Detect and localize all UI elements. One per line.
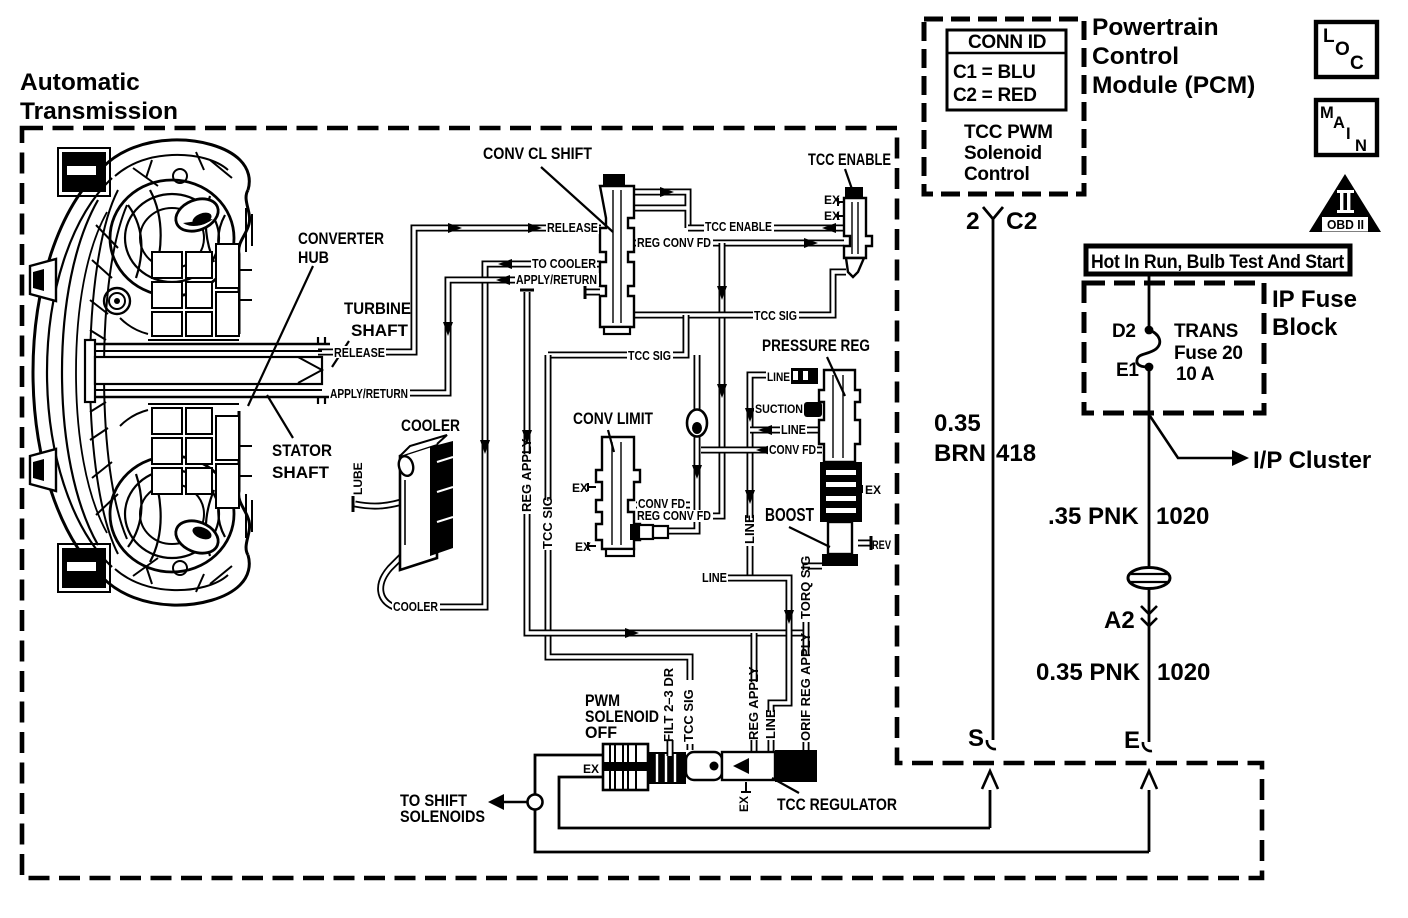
svg-text:TCC ENABLE: TCC ENABLE	[705, 219, 772, 234]
grommet	[1128, 568, 1170, 589]
pipe label TO COOLER	[531, 256, 597, 271]
pipe REG CONV FD run	[634, 238, 844, 248]
svg-text:APPLY/RETURN: APPLY/RETURN	[516, 272, 597, 287]
svg-text:C1 = BLU: C1 = BLU	[953, 62, 1036, 83]
valve PRESSURE REG	[791, 368, 862, 566]
mounting lug bottom	[62, 548, 106, 588]
pipe REG APPLY long vertical	[520, 290, 806, 638]
converter shaft	[85, 337, 330, 404]
terminal E	[1124, 727, 1152, 754]
svg-text:Automatic: Automatic	[20, 69, 140, 96]
svg-text:EX: EX	[737, 796, 751, 812]
PCM dashed box	[924, 19, 1084, 194]
svg-text:TCC PWM: TCC PWM	[964, 122, 1053, 143]
pipe APPLY/RETURN from stator shaft to CONV CL SHIFT	[330, 275, 601, 393]
valve CONV CL SHIFT	[600, 174, 634, 334]
pipe label CONV FD conv limit	[637, 496, 686, 511]
svg-text:EX: EX	[865, 483, 881, 497]
wire E return	[535, 755, 1157, 852]
svg-text:BOOST: BOOST	[765, 505, 814, 525]
svg-text:LINE: LINE	[767, 370, 790, 384]
svg-text:Fuse 20: Fuse 20	[1174, 343, 1243, 364]
svg-text:STATOR: STATOR	[272, 442, 332, 460]
svg-text:C2 = RED: C2 = RED	[953, 85, 1037, 106]
label EX tcc enable 1	[824, 193, 840, 207]
svg-text:CONN ID: CONN ID	[968, 32, 1046, 53]
svg-text:CONV LIMIT: CONV LIMIT	[573, 410, 653, 428]
Hot In Run box	[1086, 246, 1350, 274]
pipe TCC SIG long vertical to solenoid	[548, 355, 690, 750]
svg-text:LUBE: LUBE	[351, 462, 365, 495]
svg-text:I/P Cluster: I/P Cluster	[1253, 447, 1371, 474]
svg-text:O: O	[1335, 39, 1349, 60]
pipe TCC SIG upper run to TCC ENABLE	[634, 272, 846, 315]
svg-text:I: I	[1346, 125, 1351, 143]
svg-text:TURBINE: TURBINE	[344, 300, 411, 318]
svg-text:TORQ SIG: TORQ SIG	[798, 556, 813, 619]
pipe LINE main vertical	[745, 375, 791, 578]
right bottom edge	[239, 411, 250, 555]
svg-text:TCC SIG: TCC SIG	[628, 348, 671, 363]
label REV	[872, 538, 891, 552]
svg-text:LINE: LINE	[702, 570, 727, 585]
pipe cooler inlet curve	[381, 556, 402, 607]
svg-text:PRESSURE REG: PRESSURE REG	[762, 337, 870, 355]
wire .35 PNK 1020	[1048, 416, 1209, 566]
pipe label TCC ENABLE	[704, 219, 774, 234]
svg-text:C: C	[1350, 53, 1364, 74]
pipe TORQ SIG leg	[806, 566, 822, 635]
left stub bottom	[30, 449, 56, 491]
svg-text:D2: D2	[1112, 321, 1136, 342]
svg-text:Powertrain: Powertrain	[1092, 14, 1219, 41]
pipe RELEASE from turbine shaft to CONV CL SHIFT	[318, 223, 601, 352]
torque converter cross-section	[30, 140, 330, 605]
pipe label LINE bottom	[701, 570, 728, 585]
pipe label LINE mid	[780, 422, 807, 437]
svg-text:REV: REV	[872, 538, 891, 552]
svg-text:A: A	[1333, 114, 1345, 132]
svg-text:REG APPLY: REG APPLY	[519, 438, 534, 512]
svg-text:REG CONV FD: REG CONV FD	[637, 235, 711, 250]
svg-text:COOLER: COOLER	[401, 417, 460, 435]
svg-text:SHAFT: SHAFT	[272, 464, 329, 482]
svg-text:Block: Block	[1272, 314, 1338, 341]
rotated label LINE lower	[763, 709, 778, 740]
leader TURBINE SHAFT	[332, 300, 411, 367]
svg-text:M: M	[1320, 104, 1334, 122]
pipe TCC ENABLE run	[688, 223, 844, 233]
svg-text:Solenoid: Solenoid	[964, 143, 1042, 164]
svg-text:REG APPLY: REG APPLY	[746, 666, 761, 740]
PCM wire 2 C2	[934, 207, 1037, 740]
svg-text:Hot In Run, Bulb Test And Star: Hot In Run, Bulb Test And Start	[1091, 252, 1345, 273]
label EX pressure reg	[865, 483, 881, 497]
svg-text:EX: EX	[824, 193, 840, 207]
label EX tcc enable 2	[824, 209, 840, 223]
svg-text:C2: C2	[1006, 208, 1037, 235]
leader BOOST	[765, 505, 830, 547]
svg-text:RELEASE: RELEASE	[547, 220, 598, 235]
svg-text:LINE: LINE	[742, 514, 757, 544]
label EX conv limit 2	[575, 540, 591, 554]
svg-text:TCC SIG: TCC SIG	[681, 689, 696, 742]
svg-text:CONV FD: CONV FD	[769, 442, 816, 457]
label EX conv limit 1	[572, 481, 588, 495]
outer bell left arc	[33, 167, 103, 578]
svg-text:Control: Control	[1092, 43, 1179, 70]
svg-text:SHAFT: SHAFT	[351, 322, 408, 340]
svg-text:Transmission: Transmission	[20, 98, 178, 125]
svg-text:E1: E1	[1116, 360, 1139, 381]
svg-text:Module (PCM): Module (PCM)	[1092, 72, 1255, 99]
pipe label CONV FD right	[768, 442, 817, 457]
leader TCC ENABLE	[808, 151, 891, 192]
pipe vertical REG CONV FD branch	[636, 243, 727, 516]
pipe TCC SIG lower run	[548, 315, 686, 355]
label Powertrain Control Module (PCM)	[1092, 14, 1255, 99]
pipe label TCC SIG lower	[627, 348, 673, 363]
label TCC PWM Solenoid Control	[964, 122, 1053, 185]
pipe label REG CONV FD	[636, 235, 713, 250]
flexplate arcs	[62, 200, 98, 545]
pipe label RELEASE right	[546, 220, 599, 235]
turbine spline stack bottom	[152, 408, 239, 508]
pipe stub on valve left	[585, 285, 600, 299]
rotated label TCC SIG vertical	[540, 496, 555, 550]
label EX solenoid	[583, 762, 599, 776]
pipe label RELEASE left	[333, 345, 386, 360]
title Automatic Transmission	[20, 69, 178, 125]
rotated label LUBE	[351, 462, 368, 496]
CONN ID table	[947, 30, 1066, 110]
svg-text:LINE: LINE	[763, 709, 778, 739]
mounting lug top	[62, 152, 106, 192]
leader PRESSURE REG	[762, 337, 870, 396]
pipe label SUCTION	[754, 402, 804, 416]
EX stubs TCC ENABLE	[838, 198, 844, 220]
pipe CONV FD port of conv limit	[636, 502, 690, 509]
svg-text:0.35: 0.35	[934, 410, 981, 437]
svg-text:OFF: OFF	[585, 724, 617, 742]
svg-text:LINE: LINE	[781, 422, 806, 437]
svg-text:FILT 2–3 DR: FILT 2–3 DR	[661, 667, 676, 742]
label COOLER title	[401, 417, 460, 435]
pipe LUBE from cooler	[353, 496, 408, 512]
svg-text:IP Fuse: IP Fuse	[1272, 286, 1357, 313]
connector A2	[1036, 589, 1210, 742]
leader CONVERTER HUB	[248, 230, 384, 406]
svg-text:CONVERTER: CONVERTER	[298, 230, 384, 248]
leader TCC REGULATOR	[772, 778, 897, 814]
terminal S	[968, 725, 996, 752]
pipe top loop of CONV CL SHIFT	[634, 187, 688, 228]
turbine spline stack top	[152, 244, 239, 336]
svg-text:EX: EX	[575, 540, 591, 554]
svg-text:CONV CL SHIFT: CONV CL SHIFT	[483, 145, 592, 163]
valve TCC REGULATOR	[686, 750, 817, 792]
svg-text:BRN: BRN	[934, 440, 986, 467]
leader STATOR SHAFT	[267, 395, 332, 482]
bottom torus ring	[110, 456, 234, 572]
svg-text:RELEASE: RELEASE	[334, 345, 385, 360]
OBD II triangle	[1309, 174, 1381, 232]
top cap	[103, 140, 249, 190]
rotated label REG APPLY lower	[746, 666, 761, 740]
label IP Fuse Block	[1272, 286, 1357, 341]
spool piece at CONV LIMIT outlet	[630, 524, 668, 540]
svg-text:COOLER: COOLER	[393, 599, 438, 614]
svg-text:10 A: 10 A	[1176, 364, 1215, 385]
svg-text:APPLY/RETURN: APPLY/RETURN	[330, 386, 408, 401]
leader CONV CL SHIFT	[483, 145, 613, 232]
IP Fuse Block dashed box	[1084, 283, 1264, 413]
to shift solenoids arrow	[400, 792, 543, 826]
svg-text:REG CONV FD: REG CONV FD	[637, 508, 711, 523]
left stub top	[30, 259, 56, 301]
svg-text:TCC SIG: TCC SIG	[540, 496, 555, 549]
solenoid PWM assembly	[603, 744, 686, 790]
pipe label APPLY/RETURN right	[515, 272, 599, 287]
svg-text:2: 2	[966, 208, 980, 235]
rotated label REG APPLY vertical	[519, 438, 534, 514]
svg-text:S: S	[968, 725, 984, 752]
pipe conv limit CONV FD branch	[668, 355, 702, 531]
svg-text:1020: 1020	[1156, 503, 1209, 530]
pipe ORIF REG APPLY leg	[803, 633, 810, 753]
EX stub PRESSURE REG	[857, 485, 862, 493]
svg-text:N: N	[1355, 137, 1367, 155]
right top edge	[239, 190, 250, 334]
svg-text:E: E	[1124, 727, 1140, 754]
REV stub	[858, 536, 871, 550]
svg-text:TO COOLER: TO COOLER	[532, 256, 597, 271]
svg-text:.35 PNK: .35 PNK	[1048, 503, 1139, 530]
transmission boundary dashed box	[22, 128, 1262, 878]
leader CONV LIMIT	[573, 410, 653, 452]
extra housing detail lines	[90, 152, 252, 592]
svg-text:EX: EX	[824, 209, 840, 223]
pipe label TCC SIG upper	[753, 308, 799, 323]
svg-text:Control: Control	[964, 164, 1029, 185]
top torus ring	[110, 180, 234, 296]
pipe label APPLY/RETURN left	[329, 386, 410, 401]
svg-text:1020: 1020	[1157, 659, 1210, 686]
MAIN box	[1316, 100, 1377, 155]
svg-text:TCC SIG: TCC SIG	[754, 308, 797, 323]
component COOLER	[397, 435, 453, 570]
svg-text:EX: EX	[583, 762, 599, 776]
svg-text:ORIF REG APPLY: ORIF REG APPLY	[798, 633, 813, 741]
svg-text:L: L	[1323, 26, 1335, 47]
rotated label LINE vertical	[742, 514, 757, 546]
EX stubs CONV LIMIT	[588, 483, 596, 550]
pipe label COOLER bottom	[392, 599, 439, 614]
pipe LINE to boost and regulator	[728, 578, 794, 752]
pipe REG APPLY leg to regulator	[751, 633, 758, 753]
pipe LINE mid port	[750, 425, 822, 435]
svg-text:TCC ENABLE: TCC ENABLE	[808, 151, 891, 169]
svg-text:TCC REGULATOR: TCC REGULATOR	[777, 796, 897, 814]
rotated label FILT 2-3 DR	[661, 667, 676, 756]
svg-text:SOLENOIDS: SOLENOIDS	[400, 808, 485, 826]
pipe label LINE top	[766, 370, 791, 384]
check ball valve	[687, 410, 707, 437]
svg-text:0.35 PNK: 0.35 PNK	[1036, 659, 1141, 686]
svg-text:HUB: HUB	[298, 249, 329, 267]
svg-text:SUCTION: SUCTION	[755, 402, 803, 416]
rotated label TCC SIG solenoid	[681, 680, 697, 744]
pipe TO COOLER from CONV CL SHIFT to cooler	[440, 259, 601, 607]
svg-text:EX: EX	[572, 481, 588, 495]
rotated label TORQ SIG	[798, 556, 813, 622]
fuse TRANS Fuse 20 10A	[1112, 274, 1243, 416]
rotated label ORIF REG APPLY	[798, 633, 813, 742]
wire S return	[559, 771, 998, 828]
rotated label EX regulator	[737, 796, 751, 812]
pipe CONV FD run to pressure reg	[701, 445, 822, 455]
bearing	[104, 288, 130, 314]
svg-text:OBD II: OBD II	[1327, 218, 1364, 232]
valve CONV LIMIT	[596, 437, 640, 556]
pipe label REG CONV FD conv limit	[636, 508, 713, 523]
svg-text:TRANS: TRANS	[1174, 321, 1238, 342]
LOC box	[1316, 22, 1377, 77]
svg-text:A2: A2	[1104, 607, 1135, 634]
svg-text:418: 418	[996, 440, 1036, 467]
label PWM SOLENOID OFF	[585, 692, 659, 742]
bottom cap	[103, 555, 249, 605]
wire to I/P Cluster	[1150, 416, 1371, 474]
valve TCC ENABLE	[844, 187, 872, 277]
